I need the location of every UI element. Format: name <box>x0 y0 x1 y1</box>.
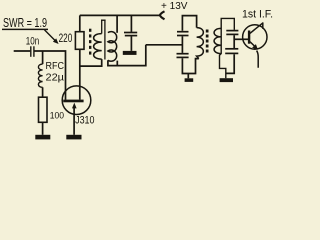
svg-text:10n: 10n <box>26 35 39 47</box>
svg-text:1st I.F.: 1st I.F. <box>242 9 273 21</box>
capacitor bypass lower lead <box>130 36 132 51</box>
resistor 220 <box>75 32 84 50</box>
capacitor base upper plates <box>226 30 238 32</box>
wire T2 cap bottom <box>182 58 198 73</box>
wire resistor to ground <box>42 122 44 135</box>
inductor RFC lead <box>42 51 44 64</box>
ground bar T2 left <box>185 78 194 82</box>
wire input right <box>35 51 66 100</box>
wire drain branch rail <box>80 59 102 66</box>
J310 gate arrow <box>72 103 77 109</box>
capacitor bypass lead <box>130 15 132 32</box>
capacitor base lower plates <box>225 48 238 50</box>
wire base node <box>233 35 235 48</box>
transformer T2 core <box>206 30 209 53</box>
svg-text:J310: J310 <box>75 115 94 127</box>
wire T2 top tie <box>182 16 196 31</box>
wire T1 to T2 <box>146 44 183 46</box>
resistor 100 <box>39 97 48 122</box>
wire to base <box>234 38 248 40</box>
wire T2 cap middle <box>181 36 183 53</box>
transformer T1 core <box>89 29 91 55</box>
capacitor 10n <box>30 46 32 57</box>
wire 220 top <box>79 15 81 31</box>
wire RFC to resistor <box>42 87 44 97</box>
transistor Q2 circle <box>243 25 267 49</box>
ground bar left <box>35 135 50 140</box>
wire 220 to drain <box>79 49 81 99</box>
wire top rail <box>80 14 160 16</box>
ground stub T2 left <box>187 74 189 79</box>
transformer T2 primary winding <box>197 28 204 59</box>
ground bar bypass <box>123 51 137 55</box>
capacitor T2A plates <box>177 31 189 33</box>
Q2 base bar <box>248 31 250 44</box>
svg-text:RFC: RFC <box>46 61 65 72</box>
wire T1 secondary bottom rail <box>108 45 146 66</box>
inductor RFC coil <box>38 64 42 87</box>
wire cap2 to ground <box>226 54 234 73</box>
svg-text:100: 100 <box>50 110 64 121</box>
capacitor bypass plates <box>124 32 137 34</box>
svg-text:SWR = 1.9: SWR = 1.9 <box>3 16 47 30</box>
wire emitter down <box>257 51 259 68</box>
Q2 collector <box>250 23 263 34</box>
svg-text:220: 220 <box>59 32 73 45</box>
transformer T1 primary winding <box>101 20 103 33</box>
ground bar T2 right <box>220 78 233 82</box>
transformer T1 secondary winding <box>108 32 117 62</box>
Q2 emitter <box>250 42 255 47</box>
transistor Q1 J310 circle <box>62 86 91 115</box>
wire gate to ground <box>73 107 75 134</box>
power connector <box>160 11 165 19</box>
svg-text:22µ: 22µ <box>46 73 65 84</box>
wire input left <box>14 50 31 52</box>
pointer arrow to input node <box>45 30 56 41</box>
wire link vertical <box>116 15 118 32</box>
underline of SWR label <box>2 28 48 30</box>
ground bar gate <box>66 135 81 140</box>
transformer T2 secondary winding <box>220 18 235 78</box>
capacitor T2B plates <box>177 53 189 55</box>
svg-text:+ 13V: + 13V <box>161 1 188 12</box>
J310 channel bar <box>63 100 83 103</box>
